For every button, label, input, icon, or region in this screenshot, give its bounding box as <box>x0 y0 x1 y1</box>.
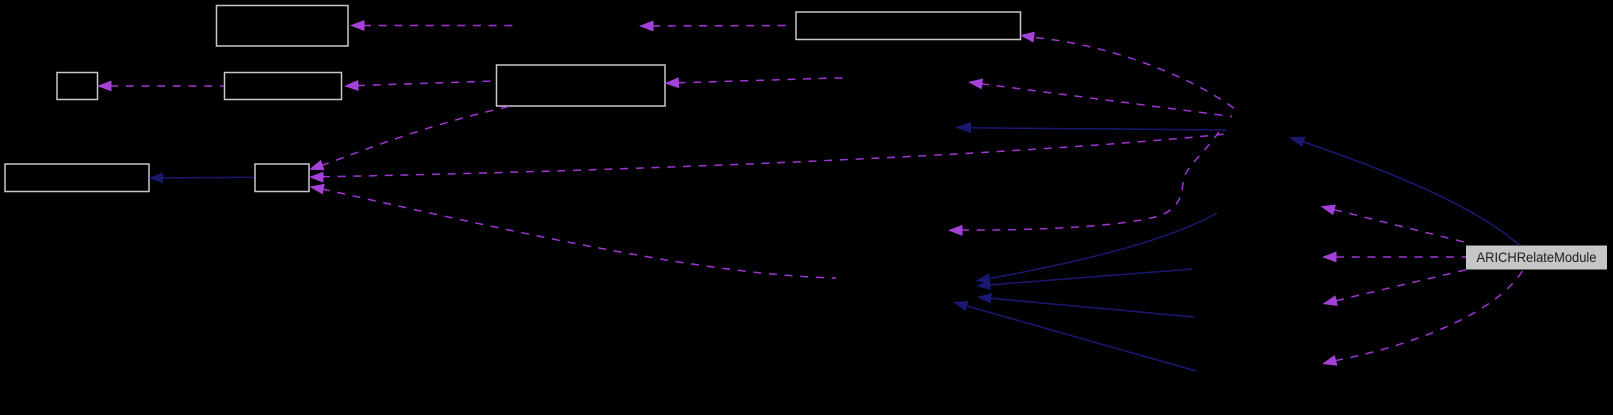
edge P4 dashed: B5 -> B4 <box>344 80 495 91</box>
node ARICHRelateModule (highlighted, filled) <box>1466 246 1607 270</box>
edge L3 blue solid: hidden column -> cluster <box>977 292 1194 317</box>
edge g3 dashed: ARICH -> right-column node 3 <box>1321 270 1466 310</box>
edge g4 dashed curve: ARICH -> right-column node 4 <box>1321 270 1523 369</box>
edge f1 dashed: B5 bottom -> E <box>307 106 510 175</box>
edge P1 dashed: hidden node H1 -> B1 <box>350 20 517 31</box>
node box B2 (top, wide, label hidden) <box>796 12 1021 40</box>
edge f3 dashed long: hidden node Nf -> E <box>308 181 836 278</box>
edge inheritance blue curve: ARICH -> hub <box>1287 132 1520 246</box>
edge blue solid: E -> D <box>149 173 255 184</box>
node box B5 (row 2, 2-line) <box>497 65 666 106</box>
node box D (bottom-left) <box>5 164 149 192</box>
edge f2 dashed long: hub -> E <box>309 134 1226 183</box>
edge L2 blue solid: hidden column -> cluster <box>976 269 1192 291</box>
node box E (small, bottom-middle-left) <box>255 164 309 192</box>
svg-text:ARICHRelateModule: ARICHRelateModule <box>1477 249 1597 265</box>
edge L4 blue solid: hidden column -> cluster <box>952 297 1196 371</box>
edge g1 dashed: ARICH -> right-column node 1 <box>1319 201 1466 243</box>
edge P7 dashed curve: hub -> B2 <box>1019 30 1240 113</box>
node box B1 (top-left, 2-line, label hidden) <box>217 6 349 47</box>
node box B3 (small, row 2) <box>57 73 98 100</box>
edge P6 dashed: hub -> hidden node Na <box>967 77 1232 117</box>
node box B4 (row 2) <box>225 73 342 100</box>
edge e3 blue solid: hub -> hidden node Nb <box>955 122 1226 133</box>
edge P5 dashed: hidden node Na -> B5 <box>664 77 847 88</box>
edge P8 dashed curve: hub -> hidden node Nd <box>948 132 1219 236</box>
edge L1 blue solid curve: hidden column -> cluster <box>975 213 1217 286</box>
edge g2 dashed: ARICH -> right-column node 2 <box>1322 252 1466 263</box>
edge P2 dashed: B2 -> hidden node H1 <box>639 21 789 32</box>
edge P3 dashed: B4 -> B3 <box>97 81 224 92</box>
